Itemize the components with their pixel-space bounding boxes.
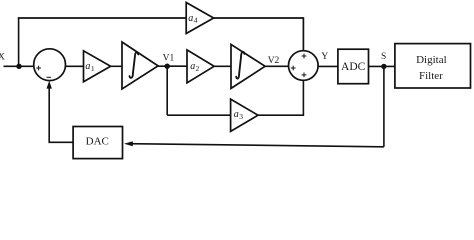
integrator U2: [231, 44, 265, 88]
amplifier a4: [186, 3, 213, 34]
node X: [0, 53, 5, 63]
wire a2 to integrator 2: [214, 65, 231, 67]
svg-text:V1: V1: [163, 54, 175, 64]
svg-text:Y: Y: [321, 52, 328, 62]
svg-text:2: 2: [196, 64, 200, 73]
wire V1 to a3: [167, 114, 230, 116]
svg-text:ADC: ADC: [341, 61, 366, 73]
Digital Filter block: [395, 44, 471, 88]
summer S1: [34, 49, 66, 81]
wire integrator1 to a2: [158, 65, 187, 67]
svg-text:a: a: [188, 13, 193, 24]
svg-text:V2: V2: [268, 56, 280, 66]
wire branch up from X junction: [18, 18, 20, 66]
wire top rail a4 to summer S2 top: [214, 18, 304, 51]
wire top rail left to a4: [18, 17, 186, 19]
summer S2: [289, 51, 319, 81]
svg-text:Filter: Filter: [419, 70, 443, 82]
svg-text:4: 4: [194, 16, 198, 25]
node S: [381, 52, 387, 69]
amplifier a1: [84, 51, 111, 82]
integrator U1: [122, 42, 158, 89]
node V1: [163, 54, 175, 69]
node V2: [268, 56, 280, 66]
wire V1 branch down: [166, 66, 168, 115]
svg-text:X: X: [0, 53, 5, 63]
svg-text:a: a: [234, 109, 239, 120]
wire bottom rail to DAC with arrow: [124, 141, 384, 147]
wire DAC to summer S1 with arrow: [47, 81, 74, 143]
node Y: [321, 52, 328, 62]
wire S2 to ADC: [318, 65, 338, 67]
junction on X wire: [16, 64, 21, 69]
svg-text:a: a: [85, 61, 90, 72]
DAC block: [73, 127, 122, 159]
wire a3 to summer S2 bottom: [258, 80, 303, 115]
ADC block: [338, 49, 369, 83]
wire X input: [4, 65, 35, 67]
svg-text:DAC: DAC: [86, 135, 109, 147]
amplifier a3: [231, 99, 258, 131]
svg-text:S: S: [381, 52, 386, 62]
svg-text:a: a: [190, 61, 195, 72]
wire S down to bottom rail: [383, 66, 385, 146]
wire a1 to integrator 1: [111, 65, 122, 67]
amplifier a2: [187, 50, 214, 83]
wire integrator2 to summer S2: [265, 65, 289, 67]
wire ADC to Digital Filter: [369, 65, 395, 67]
svg-text:Digital: Digital: [416, 54, 447, 66]
svg-text:1: 1: [91, 64, 95, 73]
svg-text:3: 3: [239, 112, 243, 121]
wire S1 to a1: [65, 65, 83, 67]
